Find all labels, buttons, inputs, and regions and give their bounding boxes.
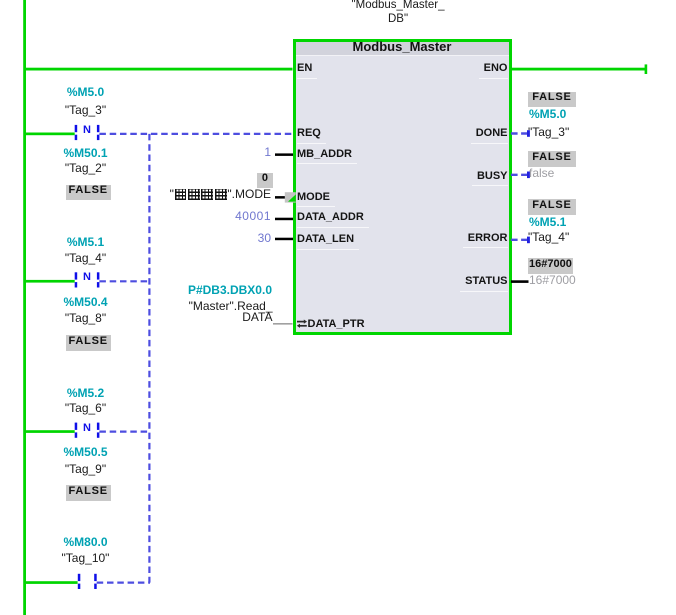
value 1 at MB_ADDR xyxy=(264,146,271,158)
wire rail to contact row2 xyxy=(26,280,75,283)
function block U1 Modbus_Master body xyxy=(293,39,512,336)
contact C1 N letter xyxy=(81,125,94,136)
operand 参数设置.MODE xyxy=(170,188,271,200)
wire stub STATUS xyxy=(511,280,529,283)
pointer P#DB3.DBX0.0 xyxy=(188,284,272,296)
operand %M5.0 above contact C1 xyxy=(26,86,145,98)
operand %M80.0 above contact C4 xyxy=(26,536,145,548)
contact C4 plain bars xyxy=(78,574,97,589)
monitor value 16#7000 of STATUS xyxy=(528,258,573,274)
monitor value 0 of MODE xyxy=(257,173,273,189)
operand Tag_9 below contact C3 xyxy=(26,463,145,475)
operand 16#7000 at STATUS xyxy=(529,274,576,286)
block title label xyxy=(296,40,509,53)
pin DONE xyxy=(471,128,508,144)
monitor value FALSE of Tag_8 xyxy=(66,335,111,351)
wire rail to contact row1 xyxy=(26,133,75,136)
instance DB name label xyxy=(298,0,498,26)
pin MB_ADDR xyxy=(297,149,357,165)
operand Tag_3 above contact C1 xyxy=(26,104,145,116)
dashed wire contact C3 to branch xyxy=(99,431,150,433)
dashed branch vertical wire xyxy=(148,134,150,583)
operand Tag_3 at DONE xyxy=(528,126,569,138)
MODE green triangle xyxy=(288,194,296,201)
wire stub DATA_LEN xyxy=(275,238,293,241)
contact C3 negative edge bars xyxy=(75,423,100,438)
wire stub DATA_ADDR xyxy=(275,218,293,221)
pin EN xyxy=(297,63,317,79)
operand Tag_2 below contact C1 xyxy=(26,162,145,174)
monitor value FALSE of Tag_2 xyxy=(66,185,111,201)
monitor value FALSE of BUSY xyxy=(528,151,576,167)
function block header bar xyxy=(296,42,509,56)
pin MODE xyxy=(297,192,335,208)
monitor value FALSE of ERROR xyxy=(528,199,576,215)
pin BUSY xyxy=(472,171,508,187)
operand %M5.2 above contact C3 xyxy=(26,387,145,399)
operand Tag_4 at ERROR xyxy=(528,231,569,243)
contact C2 negative edge bars xyxy=(75,272,100,287)
wire stub MB_ADDR xyxy=(275,153,293,156)
operand %M5.1 at ERROR xyxy=(529,216,566,228)
pin DATA_ADDR xyxy=(297,212,369,228)
operand %M50.4 below contact C2 xyxy=(26,296,145,308)
dashed wire contact C4 to branch xyxy=(97,581,150,583)
wire rail to contact row4 xyxy=(26,581,78,584)
operand %M5.0 at DONE xyxy=(529,108,566,120)
operand Tag_8 below contact C2 xyxy=(26,312,145,324)
pin ERROR xyxy=(463,233,508,249)
dashed stub BUSY xyxy=(511,174,527,176)
operand DATA xyxy=(242,311,272,323)
wire rail to EN xyxy=(26,68,293,71)
contact C3 N letter xyxy=(81,423,94,434)
operand Master.Read_ xyxy=(189,300,273,312)
wire stub MODE xyxy=(275,196,287,199)
contact C2 N letter xyxy=(81,272,94,283)
dashed wire contact C2 to branch xyxy=(99,280,150,282)
dashed stub DONE xyxy=(511,132,527,134)
contact C1 negative edge bars xyxy=(75,125,100,140)
pin DATA_LEN xyxy=(297,234,359,250)
wire ENO to right xyxy=(511,68,645,71)
dashed stub ERROR xyxy=(511,239,527,241)
pin DATA_PTR xyxy=(308,319,370,334)
operand Tag_10 above contact C4 xyxy=(26,552,145,564)
operand Tag_6 above contact C3 xyxy=(26,402,145,414)
left power rail xyxy=(23,0,26,615)
pin ENO xyxy=(479,63,508,79)
operand Tag_4 above contact C2 xyxy=(26,252,145,264)
dashed wire contact C1 to REQ xyxy=(99,133,292,135)
MODE operand square xyxy=(285,192,296,202)
operand %M5.1 above contact C2 xyxy=(26,236,145,248)
value 40001 at DATA_ADDR xyxy=(235,210,271,222)
inout symbol DATA_PTR xyxy=(297,320,307,328)
wire rail to contact row3 xyxy=(26,430,75,433)
monitor value FALSE of DONE xyxy=(528,92,576,108)
wire stub DATA_PTR xyxy=(273,323,293,324)
operand %M50.1 below contact C1 xyxy=(26,147,145,159)
value 30 at DATA_LEN xyxy=(258,232,271,244)
operand false at BUSY xyxy=(529,167,554,179)
pin REQ xyxy=(297,128,326,144)
wire end tick xyxy=(645,64,648,74)
operand %M50.5 below contact C3 xyxy=(26,446,145,458)
pin STATUS xyxy=(460,276,507,292)
monitor value FALSE of Tag_9 xyxy=(66,485,111,501)
